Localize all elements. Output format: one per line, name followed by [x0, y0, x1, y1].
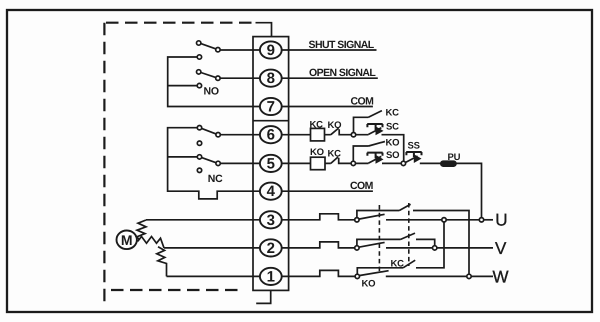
wire terminal2 left (motor): [164, 242, 355, 248]
svg-text:1: 1: [267, 268, 275, 285]
wire row3 to U: [386, 219, 442, 221]
contactor KO contact row1: [360, 271, 389, 276]
svg-text:4: 4: [267, 183, 276, 200]
contactor KO contact row2: [359, 242, 384, 247]
actuator enclosure dashed boundary: [104, 23, 255, 306]
svg-text:KO: KO: [310, 147, 324, 158]
wire: dashed boundary to terminal strip top: [256, 23, 272, 37]
coil KC: [311, 128, 325, 141]
node row2: [355, 246, 359, 250]
coil KO: [311, 157, 326, 170]
limit switch SO: [356, 156, 382, 163]
terminal 5: [260, 155, 282, 172]
wire terminal7 bus to COM: [168, 57, 373, 107]
terminal strip: [253, 37, 289, 291]
svg-text:COM: COM: [350, 180, 374, 192]
limit switch contact (shut) for terminal 9: [201, 44, 216, 49]
motor winding zigzag middle: [138, 237, 165, 248]
selector switch SS: [405, 156, 441, 163]
contact KC upper row6: [354, 111, 382, 133]
wire row2 to V: [386, 247, 433, 249]
svg-text:6: 6: [267, 127, 275, 144]
svg-text:9: 9: [267, 42, 275, 59]
svg-text:V: V: [495, 239, 507, 258]
terminal 7: [260, 98, 282, 115]
svg-text:KO: KO: [328, 120, 342, 131]
wire terminal5 left: [220, 162, 310, 164]
wire SC to node B: [382, 135, 404, 162]
wire PU to U node: [456, 163, 482, 217]
node row6: [351, 133, 355, 137]
mechanical linkage KO (dashed): [378, 205, 380, 274]
svg-text:SHUT SIGNAL: SHUT SIGNAL: [309, 39, 375, 51]
wire NO throw tap: [168, 85, 198, 87]
node row3: [355, 218, 359, 222]
node row5 right: [401, 161, 405, 165]
svg-text:7: 7: [267, 99, 275, 116]
wire terminal3 left (motor): [146, 214, 355, 220]
wire: terminal strip bottom stub: [256, 290, 271, 303]
node V: [433, 246, 437, 250]
mechanical linkage KC (dashed): [408, 203, 410, 266]
svg-text:SC: SC: [386, 122, 399, 133]
terminal 4: [260, 183, 282, 200]
svg-text:COM: COM: [351, 96, 375, 108]
wire terminal6 left: [220, 134, 310, 136]
node W: [467, 274, 471, 278]
svg-text:W: W: [493, 268, 509, 287]
fuse PU: [441, 161, 456, 166]
contactor KC contact row3 upper: [357, 204, 469, 274]
wire SO to node B: [382, 162, 401, 164]
node U: [479, 218, 483, 222]
svg-text:KC: KC: [391, 258, 405, 269]
terminal 2: [260, 239, 282, 256]
node row1: [355, 274, 359, 278]
svg-text:M: M: [121, 232, 133, 248]
terminal 8: [260, 70, 282, 87]
wire terminal8 left: [220, 77, 378, 79]
svg-text:OPEN SIGNAL: OPEN SIGNAL: [309, 67, 376, 79]
contactor KC contact row1 upper: [357, 222, 444, 274]
contactor KC contact row2 upper: [357, 233, 435, 246]
svg-text:KC: KC: [310, 120, 324, 131]
svg-text:8: 8: [267, 70, 275, 87]
wire terminal4 bus: [168, 128, 373, 199]
terminal 1: [260, 268, 282, 285]
wire terminal9 left: [220, 49, 376, 51]
svg-text:KO: KO: [386, 138, 400, 149]
wire tap switch5: [168, 156, 198, 158]
limit switch SC: [356, 128, 382, 135]
svg-text:U: U: [495, 210, 507, 229]
contactor KO contact row3: [359, 214, 384, 219]
motor winding zigzag upper: [137, 220, 147, 240]
svg-text:NC: NC: [208, 173, 223, 185]
svg-text:5: 5: [267, 155, 275, 172]
svg-text:KO: KO: [362, 278, 376, 289]
aux switch contact for terminal 5 (NC): [202, 158, 216, 163]
contact KO upper row5: [353, 142, 385, 162]
node row5 left: [351, 161, 355, 165]
svg-text:KC: KC: [386, 108, 400, 119]
motor winding zigzag lower: [157, 247, 167, 277]
aux contact KC row5: [325, 157, 351, 163]
wire row1 to W: [386, 275, 467, 277]
svg-text:SO: SO: [386, 150, 399, 161]
wire terminal1 left (motor): [167, 270, 356, 276]
svg-text:PU: PU: [448, 152, 461, 163]
motor M1: [117, 231, 137, 250]
svg-text:3: 3: [267, 212, 275, 229]
svg-text:2: 2: [267, 240, 275, 257]
svg-text:KC: KC: [328, 148, 342, 159]
aux switch contact for terminal 6: [202, 128, 216, 134]
junction node row3/KC: [442, 218, 446, 222]
terminal 6: [260, 126, 282, 143]
svg-text:NO: NO: [204, 86, 219, 98]
limit switch contact (open) for terminal 8: [201, 73, 216, 78]
aux contact KO row6: [325, 128, 352, 135]
terminal numbers 9-1: [267, 42, 276, 285]
terminal 3: [260, 211, 282, 228]
terminal 9: [260, 41, 282, 58]
svg-text:SS: SS: [408, 141, 420, 152]
